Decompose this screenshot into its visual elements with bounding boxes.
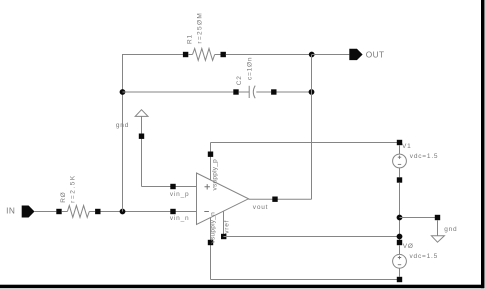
vsource V0 bbox=[393, 240, 407, 282]
svg-text:R1: R1 bbox=[186, 34, 193, 44]
wire IN to R0 bbox=[35, 211, 57, 213]
gnd symbol right bbox=[431, 215, 444, 242]
wire feedback riser bbox=[311, 55, 313, 200]
svg-text:C2: C2 bbox=[236, 75, 243, 85]
terminal square vref bbox=[221, 234, 226, 239]
op-amp vsupply_n stem bbox=[210, 218, 212, 280]
wire vout horizontal bbox=[249, 198, 312, 200]
wire vin_p bbox=[142, 186, 197, 188]
svg-text:vsupply_p: vsupply_p bbox=[212, 159, 219, 191]
terminal square vin_p bbox=[170, 184, 175, 189]
terminal square vsupply_n bbox=[208, 240, 213, 245]
wire R0 to node vin_n bbox=[101, 211, 197, 213]
junction dot C2 right node bbox=[309, 89, 315, 95]
terminal square vout bbox=[272, 197, 277, 202]
port IN bbox=[22, 206, 35, 218]
svg-text:vsupply_n: vsupply_n bbox=[209, 212, 216, 244]
wire V1 to V0 node bbox=[399, 183, 401, 243]
resistor R1 bbox=[183, 49, 226, 61]
op-amp plus input mark bbox=[205, 184, 210, 189]
svg-text:vdc=1.5: vdc=1.5 bbox=[410, 253, 439, 260]
svg-text:VØ: VØ bbox=[403, 243, 414, 250]
op-amp U1 triangle bbox=[197, 173, 249, 225]
vsource V1 bbox=[393, 140, 407, 183]
svg-text:RØ: RØ bbox=[60, 191, 67, 202]
svg-text:vout: vout bbox=[253, 204, 268, 211]
svg-text:IN: IN bbox=[6, 206, 15, 216]
junction dot at IN node bbox=[120, 209, 126, 215]
wire to OUT port bbox=[312, 54, 350, 56]
wire to gnd right bbox=[400, 217, 438, 219]
wire C2 left bbox=[123, 91, 234, 93]
svg-text:c=1Øn: c=1Øn bbox=[247, 57, 254, 80]
wire C2 right to feedback riser bbox=[277, 91, 312, 93]
op-amp minus input mark bbox=[204, 211, 209, 213]
wire R1 to OUT node bbox=[226, 54, 312, 56]
svg-text:vref: vref bbox=[224, 220, 231, 234]
capacitor C2 bbox=[233, 86, 276, 99]
svg-text:r=2.5K: r=2.5K bbox=[70, 174, 77, 203]
svg-text:V1: V1 bbox=[402, 143, 412, 150]
resistor R0 bbox=[56, 206, 100, 218]
wire vertical left riser bbox=[122, 55, 124, 212]
terminal square vin_n bbox=[170, 209, 175, 214]
border bar right bbox=[481, 0, 485, 288]
svg-text:gnd: gnd bbox=[116, 122, 129, 129]
svg-text:vin_p: vin_p bbox=[170, 191, 190, 198]
svg-text:r=25ØM: r=25ØM bbox=[197, 12, 204, 44]
op-amp vref stem bbox=[223, 211, 225, 237]
wire vref to V0 node bbox=[224, 236, 400, 238]
wire top to R1 bbox=[122, 54, 183, 56]
terminal square vsupply_p bbox=[208, 152, 213, 157]
svg-text:gnd: gnd bbox=[444, 226, 457, 233]
svg-text:vin_n: vin_n bbox=[170, 215, 190, 222]
junction dot vref node bbox=[397, 234, 403, 240]
svg-text:vdc=1.5: vdc=1.5 bbox=[410, 153, 439, 160]
port OUT bbox=[349, 49, 362, 60]
border bar bottom bbox=[0, 285, 485, 289]
junction dot OUT node bbox=[309, 52, 315, 58]
wire vsupply_p to V1 bbox=[211, 142, 400, 144]
op-amp vsupply_p stem bbox=[210, 143, 212, 181]
wire bottom vsupply_n to V0 bbox=[211, 279, 400, 281]
junction dot C2 left node bbox=[120, 89, 126, 95]
junction dot gnd node bbox=[397, 215, 403, 221]
gnd symbol left bbox=[135, 110, 148, 187]
svg-text:OUT: OUT bbox=[366, 50, 385, 60]
